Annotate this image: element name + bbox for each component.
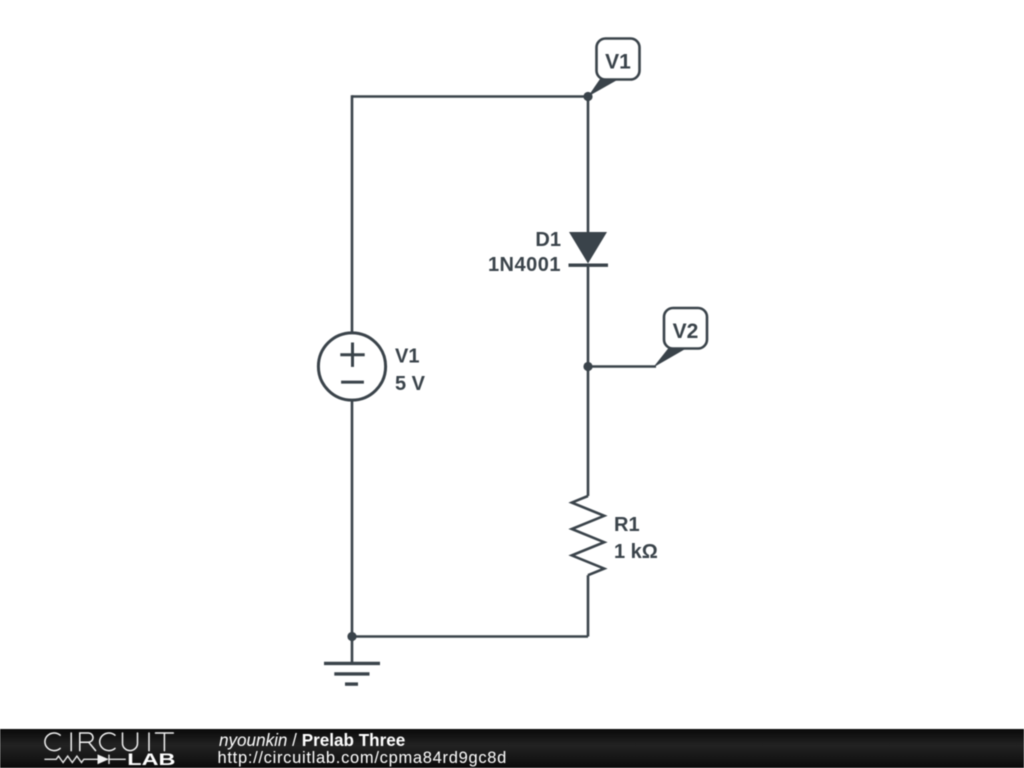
svg-text:D1: D1 [535,229,561,251]
svg-text:1 kΩ: 1 kΩ [614,541,658,563]
svg-text:http://circuitlab.com/cpma84rd: http://circuitlab.com/cpma84rd9gc8d [218,749,508,767]
svg-text:V2: V2 [673,320,699,343]
svg-text:5 V: 5 V [395,373,426,395]
svg-text:V1: V1 [395,346,419,368]
svg-text:1N4001: 1N4001 [488,254,561,276]
svg-text:V1: V1 [605,51,631,74]
svg-text:LAB: LAB [127,751,175,768]
svg-text:nyounkin / Prelab Three: nyounkin / Prelab Three [219,731,405,750]
svg-text:R1: R1 [614,514,640,536]
